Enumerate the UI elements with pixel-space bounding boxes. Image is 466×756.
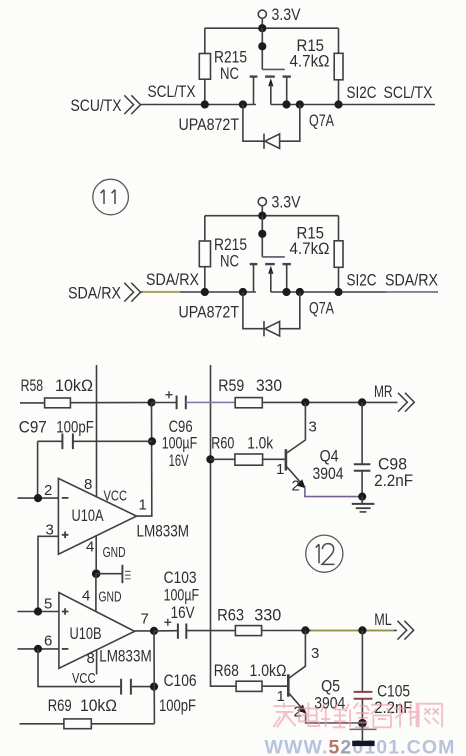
node: Q5 collector tap <box>301 626 309 634</box>
node: Q4 emitter / C98 / ground junction <box>358 493 366 501</box>
wire: 3.3V rail (mid) <box>205 215 339 217</box>
wire: U10A feedback vertical <box>137 403 152 517</box>
svg-text:LM833M: LM833M <box>99 647 152 666</box>
wire: yellow tinted stub (mid) <box>143 291 181 293</box>
capacitor C106 100pF <box>121 679 154 695</box>
node: diode cathode tap (top) <box>239 100 247 108</box>
svg-text:WWW.520101.COM: WWW.520101.COM <box>265 737 456 756</box>
wire: blue tinted right stub (mid) <box>386 291 438 293</box>
node: Q5 emitter / C105 / ground junction <box>358 719 367 728</box>
capacitor C97 100pF <box>38 434 152 450</box>
svg-text:4: 4 <box>86 538 94 555</box>
node: diode cathode tap (mid) <box>239 288 247 296</box>
diode body D (mid): cathode bar <box>263 321 265 336</box>
resistor R15 4.7k (top) <box>334 28 343 104</box>
node: R15 to bus (mid) <box>334 288 342 296</box>
svg-text:330: 330 <box>256 376 282 395</box>
svg-text:GND: GND <box>103 544 126 561</box>
label R59 330 <box>218 376 282 395</box>
wire: supply corner to R68 <box>211 685 237 687</box>
input chevron SCU/TX (top) <box>124 95 140 114</box>
transistor Q7A drain stem (top) <box>286 77 288 105</box>
svg-text:3904: 3904 <box>313 464 344 483</box>
svg-text:R59: R59 <box>218 376 244 395</box>
wire: ML rail yellow tint <box>311 629 394 631</box>
label Q5 3904 <box>314 676 345 712</box>
capacitor C98 2.2nF <box>354 402 371 496</box>
node: R15 to bus (top) <box>334 100 342 108</box>
svg-text:100µF: 100µF <box>162 433 198 452</box>
node: gate feed junction (mid) <box>258 230 266 238</box>
node: rail junction (top) <box>258 24 266 32</box>
svg-text:1.0k: 1.0k <box>247 433 273 452</box>
node: drain stem junction (top) <box>282 100 290 108</box>
svg-text:Q4: Q4 <box>320 446 339 465</box>
svg-text:8: 8 <box>84 476 92 493</box>
svg-text:5: 5 <box>44 595 52 612</box>
wire: pin6 drop to C106 <box>38 649 121 687</box>
wire: source-side bus (top) <box>141 104 256 106</box>
node: diode anode tap (top) <box>296 100 304 108</box>
transistor Q4 emitter with arrow <box>287 467 362 497</box>
node: R215 to bus (top) <box>201 100 209 108</box>
node: drain stem junction (mid) <box>282 288 290 296</box>
diode body D (mid): wire cathode side <box>243 292 264 329</box>
node: R58/C96/feedback junction <box>147 398 155 406</box>
transistor Q7A channel bars (mid) <box>250 263 291 265</box>
wire: C103 to R63 <box>186 630 235 632</box>
svg-text:16V: 16V <box>171 603 196 622</box>
resistor R215 (top) <box>199 28 210 104</box>
svg-text:Q7A: Q7A <box>309 111 335 130</box>
resistor R15 4.7k (mid) <box>334 216 343 292</box>
power terminal 3.3V (top) <box>258 10 266 28</box>
transistor Q5 base bar <box>287 674 290 696</box>
resistor R69 10kOhm <box>20 719 155 729</box>
transistor Q7A source stem (top) <box>253 77 255 105</box>
op-amp U10A triangle <box>58 478 136 554</box>
label R60 1.0k <box>211 433 273 452</box>
svg-text:SCL/TX: SCL/TX <box>148 82 196 101</box>
svg-text:SI2C: SI2C <box>347 83 377 102</box>
svg-text:100pF: 100pF <box>56 417 94 436</box>
node: gate feed junction (top) <box>258 42 266 50</box>
svg-text:R68: R68 <box>214 661 239 680</box>
diode body D (top): triangle <box>265 134 280 149</box>
resistor R60 1.0k <box>210 454 285 465</box>
diode body D (mid): wire anode side <box>280 292 300 329</box>
svg-text:R58: R58 <box>21 376 43 395</box>
svg-text:UPA872T: UPA872T <box>179 115 240 134</box>
svg-text:Q5: Q5 <box>321 676 340 695</box>
svg-text:3.3V: 3.3V <box>272 5 302 24</box>
svg-text:SDA/RX: SDA/RX <box>146 270 199 289</box>
svg-text:3: 3 <box>309 419 317 436</box>
node: ground mid junction <box>92 569 101 578</box>
decoupling stub with hatch plate <box>96 565 130 583</box>
svg-text:SCL/TX: SCL/TX <box>384 83 433 102</box>
transistor Q7A gate lead (top) <box>262 68 285 70</box>
watermark hanzi 修 <box>345 703 369 728</box>
label C98 2.2nF <box>374 455 413 490</box>
svg-text:NC: NC <box>220 64 239 83</box>
node: C97 right junction <box>148 437 156 445</box>
wire: U10A pin4 ground lead <box>95 536 97 573</box>
svg-text:3: 3 <box>311 645 319 662</box>
transistor Q4 base bar <box>285 449 288 470</box>
wire: source-side bus (mid) <box>141 291 256 293</box>
label Q4 3904 <box>313 446 344 483</box>
wire: pin3 stub and link to pin5 <box>38 536 58 611</box>
svg-text:MR: MR <box>374 382 393 401</box>
node: pin7 junction <box>150 627 158 635</box>
watermark hanzi 电 <box>299 703 319 727</box>
svg-text:1: 1 <box>277 688 285 705</box>
callout circle 11 <box>93 179 129 215</box>
op-amp U10A plus sign <box>62 532 69 539</box>
wire: drain-side bus (top) <box>271 104 435 106</box>
transistor Q7A source stem (mid) <box>253 264 255 292</box>
node: R215 to bus (mid) <box>201 288 209 296</box>
watermark hanzi 资 <box>371 705 392 727</box>
watermark hanzi 料 <box>394 703 419 728</box>
diode body D (top): wire cathode side <box>243 105 264 142</box>
resistor R63 330 <box>235 626 396 636</box>
label R215 NC (top) <box>214 48 247 83</box>
node: R60 supply tap <box>206 455 214 463</box>
label C106 100pF <box>159 671 197 715</box>
svg-text:C97: C97 <box>19 417 47 436</box>
op-amp U10B triangle <box>59 593 135 669</box>
node: Q4 collector tap <box>301 398 309 406</box>
input chevron SDA/RX (mid) <box>124 283 140 302</box>
svg-text:SCU/TX: SCU/TX <box>71 96 122 115</box>
label R68 1.0kOhm <box>214 661 287 680</box>
transistor Q7A substrate arrow (mid) <box>268 266 273 292</box>
capacitor C105 2.2nF <box>354 630 373 723</box>
output chevron MR <box>398 393 414 412</box>
transistor Q5 collector <box>289 630 305 678</box>
watermark hanzi 网 <box>419 704 443 728</box>
op-amp U10A minus sign <box>62 497 69 499</box>
watermark hanzi 家 <box>273 703 295 728</box>
wire: gate feed vertical (mid) <box>261 216 263 257</box>
svg-text:1: 1 <box>139 497 147 514</box>
wire: drain-side bus (mid) <box>271 291 438 293</box>
diode body D (top): cathode bar <box>263 134 265 149</box>
svg-text:10kΩ: 10kΩ <box>55 376 93 395</box>
svg-text:R63: R63 <box>217 606 244 625</box>
node: pin5 junction <box>34 607 42 615</box>
label R58 10kOhm <box>21 376 93 395</box>
svg-text:4: 4 <box>82 588 90 605</box>
svg-text:R69: R69 <box>48 696 72 715</box>
capacitor C96 100uF <box>152 391 186 409</box>
svg-text:10kΩ: 10kΩ <box>80 696 117 715</box>
resistor R58 <box>20 398 152 408</box>
node: pin2 junction <box>34 494 42 502</box>
svg-text:ML: ML <box>374 610 392 629</box>
label C96 100uF 16V <box>162 417 198 470</box>
svg-text:GND: GND <box>99 589 122 606</box>
svg-text:100µF: 100µF <box>164 586 200 605</box>
svg-text:Q7A: Q7A <box>309 299 335 318</box>
svg-text:NC: NC <box>220 251 239 270</box>
node: C98 tap <box>358 398 366 406</box>
svg-text:C106: C106 <box>164 671 197 690</box>
node: diode anode tap (mid) <box>296 288 304 296</box>
svg-text:LM833M: LM833M <box>137 521 190 540</box>
output chevron ML <box>397 621 413 640</box>
label C103 100uF 16V <box>164 568 200 622</box>
node: rail junction (mid) <box>258 212 266 220</box>
wire: 3.3V rail (top) <box>205 27 339 29</box>
wire: U10B feedback vertical <box>153 631 155 724</box>
transistor Q4 collector <box>287 402 306 453</box>
svg-text:R60: R60 <box>211 433 234 452</box>
resistor R68 1.0kOhm <box>236 681 287 691</box>
transistor Q7A substrate arrow (top) <box>268 78 273 104</box>
label R69 10kOhm <box>48 696 117 715</box>
transistor Q7A gate lead (mid) <box>262 256 285 258</box>
svg-text:4.7kΩ: 4.7kΩ <box>290 51 330 70</box>
transistor Q7A drain stem (mid) <box>286 264 288 292</box>
capacitor C103 100uF <box>154 619 186 639</box>
svg-text:330: 330 <box>254 606 281 625</box>
label R15 4.7kOhm (top) <box>290 36 330 70</box>
ground symbol (C105) <box>350 723 377 746</box>
svg-text:16V: 16V <box>169 451 190 470</box>
transistor Q5 emitter with arrow <box>289 694 362 723</box>
svg-text:2.2nF: 2.2nF <box>374 698 412 717</box>
node: pin6 junction <box>34 645 42 653</box>
svg-text:1: 1 <box>276 461 284 478</box>
svg-text:2: 2 <box>44 482 52 499</box>
label C105 2.2nF <box>374 682 412 717</box>
svg-text:U10A: U10A <box>72 506 105 525</box>
svg-text:SI2C: SI2C <box>347 270 377 289</box>
node: C105 tap <box>358 626 366 634</box>
wire: U10B pin8 stub <box>96 650 98 674</box>
wire: U10B pin5 input <box>18 611 59 613</box>
wire: U10A pin2 input <box>18 497 59 499</box>
label R215 NC (mid) <box>214 235 247 270</box>
op-amp U10B minus sign <box>62 648 69 650</box>
label C97 100pF <box>19 417 94 436</box>
wire: C97 drop to inverting input <box>37 441 39 498</box>
resistor R215 (mid) <box>199 216 210 292</box>
watermark hanzi 维 <box>321 703 346 728</box>
svg-text:4.7kΩ: 4.7kΩ <box>290 239 330 258</box>
wire: U10B pin6 input <box>18 648 59 650</box>
svg-text:6: 6 <box>44 633 52 650</box>
svg-text:2.2nF: 2.2nF <box>374 471 413 490</box>
power terminal 3.3V (mid) <box>258 198 266 216</box>
resistor R59 330 <box>235 398 397 408</box>
label R15 4.7kOhm (mid) <box>290 224 330 258</box>
callout circle 12 <box>306 535 343 572</box>
svg-text:1.0kΩ: 1.0kΩ <box>250 661 287 680</box>
node: C106/feedback junction <box>150 683 158 691</box>
svg-text:8: 8 <box>87 650 95 667</box>
svg-text:UPA872T: UPA872T <box>179 302 240 321</box>
wire: VCC stub rail left (pin 8 U10A) <box>96 365 98 497</box>
ground symbol (C98) <box>352 497 375 512</box>
wire: gate feed vertical (top) <box>261 28 263 69</box>
svg-text:3.3V: 3.3V <box>272 193 302 212</box>
transistor Q7A channel bars (top) <box>250 75 291 77</box>
svg-text:2: 2 <box>292 478 300 495</box>
label R63 330 <box>217 606 281 625</box>
diode body D (top): wire anode side <box>280 105 300 142</box>
wire: supply rail x=211 <box>210 365 212 686</box>
wire: U10B pin4 ground lead <box>95 574 97 612</box>
svg-text:100pF: 100pF <box>159 696 196 715</box>
wire: U10B output pin7 <box>135 630 154 632</box>
diode body D (mid): triangle <box>265 321 280 336</box>
op-amp U10B plus sign <box>62 608 69 615</box>
svg-text:C103: C103 <box>164 568 197 587</box>
svg-text:SDA/RX: SDA/RX <box>68 284 121 303</box>
wire: C96 to R59 (blue tint) <box>186 401 235 403</box>
svg-text:U10B: U10B <box>70 624 102 643</box>
svg-text:7: 7 <box>141 611 149 628</box>
svg-text:VCC: VCC <box>72 670 96 687</box>
svg-text:SDA/RX: SDA/RX <box>385 270 438 289</box>
